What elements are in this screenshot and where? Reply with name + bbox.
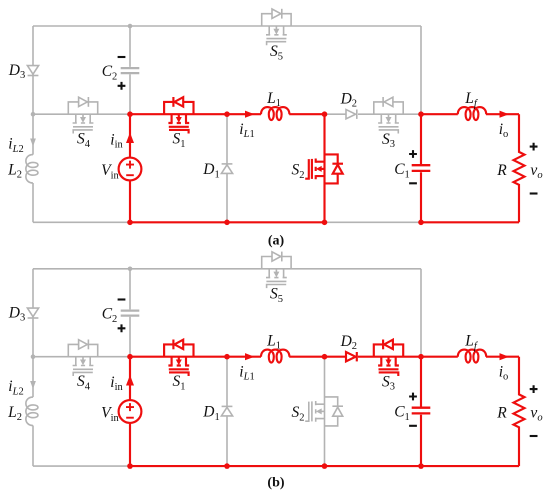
polarity minus of vo (fig a) <box>530 192 538 194</box>
current arrow io (fig b) <box>500 353 510 360</box>
node: D1 bottom junction (fig a) <box>224 220 230 226</box>
current arrow iin (fig b) <box>126 375 134 386</box>
current arrow iL1 (fig a) <box>245 111 255 118</box>
svg-text:S3: S3 <box>382 131 395 150</box>
voltage source Vin (fig b) <box>119 400 142 423</box>
inductor Lf (fig b) <box>458 350 486 363</box>
svg-text:io: io <box>499 363 509 382</box>
wire: middle rail C1 node to Lf (fig a) <box>421 113 458 115</box>
svg-text:D1: D1 <box>202 161 219 180</box>
diode D3 (fig b) <box>27 308 38 317</box>
figure (b) circuit <box>7 252 543 491</box>
node: C1 bottom junction (fig b) <box>418 463 424 469</box>
node: Vin top junction (fig b) <box>127 354 133 360</box>
svg-text:R: R <box>496 162 507 179</box>
diode D2 (fig b) <box>346 352 356 361</box>
wire: left rail lower segment with L2 (fig b) <box>32 357 34 466</box>
wire: S2 branch vertical (fig a) <box>323 114 325 222</box>
wire: C2 branch vertical (fig a) <box>129 26 131 114</box>
svg-text:S2: S2 <box>292 404 305 423</box>
wire: bottom rail left gray segment (fig a) <box>33 221 130 223</box>
wire: middle rail D2 to C1 node through S3 (fig b) <box>358 356 421 358</box>
inductor Lf (fig a) <box>458 107 486 120</box>
node: Vin bottom junction (fig a) <box>127 220 133 226</box>
wire: left rail lower segment with L2 (fig a) <box>32 114 34 222</box>
polarity plus of C2 (fig b) <box>118 324 126 332</box>
switch S3 (fig b) <box>374 344 403 356</box>
switch S1 (fig b) <box>164 344 193 356</box>
switch S2 (fig a) <box>325 154 338 183</box>
polarity minus of vo (fig b) <box>530 435 538 437</box>
wire: top rail (fig b) <box>33 268 421 270</box>
svg-text:Vin: Vin <box>101 162 119 181</box>
wire: Lf to load corner (fig b) <box>486 356 519 358</box>
wire: top rail (fig a) <box>33 25 421 27</box>
wire: middle rail Vin node to L1 (through S1) (fig b) <box>130 356 261 358</box>
switch S5 (fig b) <box>262 257 291 269</box>
svg-text:Lf: Lf <box>464 90 479 109</box>
wire: bottom rail S2-to-C1 segment (fig a) <box>325 221 422 223</box>
svg-text:S5: S5 <box>270 286 283 305</box>
switch S4 (fig a) <box>68 102 97 114</box>
diode D1 (fig b) <box>222 405 233 407</box>
wire: C2 branch vertical (fig b) <box>129 269 131 357</box>
wire: middle rail D2 to C1 node through S3 (fig a) <box>358 113 421 115</box>
polarity minus of C1 (fig b) <box>409 425 417 427</box>
svg-text:vo: vo <box>530 404 542 423</box>
capacitor C2 (fig a) <box>121 68 140 73</box>
current arrow io (fig a) <box>500 111 510 118</box>
node: S2 top junction (fig a) <box>322 111 328 117</box>
svg-text:L2: L2 <box>7 161 22 180</box>
svg-text:S1: S1 <box>173 373 186 392</box>
wire: Vin branch vertical (fig b) <box>129 357 131 466</box>
wire: left rail top segment with D3 (fig a) <box>32 26 34 114</box>
capacitor C1 (fig a) <box>412 165 431 171</box>
svg-text:D3: D3 <box>8 304 25 323</box>
svg-text:L1: L1 <box>266 90 281 109</box>
svg-text:C2: C2 <box>102 306 118 325</box>
svg-text:iL1: iL1 <box>239 363 254 382</box>
node: D1 top junction (fig b) <box>224 354 230 360</box>
node: C1 top junction (fig b) <box>418 354 424 360</box>
svg-text:(a): (a) <box>268 234 285 249</box>
inductor L1 (fig a) <box>261 107 289 120</box>
wire: C1 branch vertical (fig a) <box>420 114 422 222</box>
wire: middle rail Vin node to L1 (through S1) (fig a) <box>130 113 261 115</box>
svg-text:Lf: Lf <box>464 333 479 352</box>
polarity plus of C1 (fig b) <box>409 393 417 401</box>
node: left rail / middle rail junction (fig a) <box>31 112 36 117</box>
current arrow iL2 (fig a) <box>30 139 36 147</box>
diode D1 branch wire (fig a) <box>226 114 228 222</box>
svg-text:S1: S1 <box>173 131 186 150</box>
current arrow iin (fig a) <box>126 133 134 144</box>
diode D1 (fig a) <box>222 163 233 165</box>
svg-text:S5: S5 <box>270 43 283 62</box>
wire: bottom rail left gray segment (fig b) <box>33 465 130 467</box>
figure (a) circuit <box>7 9 543 249</box>
node: top rail / C2 junction (fig a) <box>128 24 133 29</box>
wire: C1 branch vertical (fig b) <box>420 357 422 466</box>
svg-text:D2: D2 <box>340 90 357 109</box>
wire: bottom rail S2-to-C1 segment (fig b) <box>325 465 422 467</box>
diode D2 (fig a) <box>346 110 356 119</box>
polarity minus of C1 (fig a) <box>409 182 417 184</box>
wire: middle rail L1 to S2 node (fig b) <box>289 356 324 358</box>
node: C1 top junction (fig a) <box>418 111 424 117</box>
svg-text:iin: iin <box>110 131 123 150</box>
polarity plus of C2 (fig a) <box>118 82 126 90</box>
svg-text:S4: S4 <box>77 373 91 392</box>
svg-text:vo: vo <box>530 162 542 181</box>
svg-text:S4: S4 <box>77 131 91 150</box>
node: S2 bottom junction (fig b) <box>322 463 328 469</box>
node: S2 bottom junction (fig a) <box>322 220 328 226</box>
wire: S5 right leg, top rail down to middle rail (fig b) <box>420 269 422 357</box>
node: Vin top junction (fig a) <box>127 111 133 117</box>
polarity plus of vo (fig a) <box>530 143 538 151</box>
capacitor C2 (fig b) <box>121 311 140 316</box>
polarity minus of C2 (fig b) <box>118 298 126 300</box>
polarity minus of C2 (fig a) <box>118 56 126 58</box>
node: D1 bottom junction (fig b) <box>224 463 230 469</box>
svg-text:iL2: iL2 <box>8 378 23 397</box>
svg-text:C1: C1 <box>394 161 410 180</box>
capacitor C1 (fig b) <box>412 408 431 414</box>
resistor R with right rail (fig a) <box>514 114 525 222</box>
wire: left rail top segment with D3 (fig b) <box>32 269 34 357</box>
wire: bottom rail C1-to-R red segment (fig b) <box>421 465 519 467</box>
svg-text:D1: D1 <box>202 404 219 423</box>
svg-text:(b): (b) <box>267 475 284 490</box>
inductor L2 (fig b) <box>26 397 38 425</box>
wire: middle rail S2 node to D2 (fig a) <box>325 113 347 115</box>
switch S5 (fig a) <box>262 14 291 26</box>
svg-text:iin: iin <box>110 374 123 393</box>
wire: Vin branch vertical (fig a) <box>129 114 131 222</box>
wire: S5 right leg, top rail down to middle rail (fig a) <box>420 26 422 114</box>
resistor R with right rail (fig b) <box>514 357 525 466</box>
switch S1 (fig a) <box>164 102 193 114</box>
svg-text:S2: S2 <box>292 162 305 181</box>
node: C1 bottom junction (fig a) <box>418 220 424 226</box>
svg-text:D3: D3 <box>8 62 25 81</box>
wire: bottom rail Vin-to-S2 red segment (fig b) <box>130 465 325 467</box>
inductor L2 (fig a) <box>26 155 38 183</box>
wire: middle rail left segment through S4 (fig b) <box>33 356 130 358</box>
wire: middle rail C1 node to Lf (fig b) <box>421 356 458 358</box>
node: top rail / C2 junction (fig b) <box>128 267 133 272</box>
node: S2 top junction (fig b) <box>322 354 328 360</box>
svg-text:iL2: iL2 <box>8 136 23 155</box>
current arrow iL2 (fig b) <box>30 381 36 389</box>
svg-text:S3: S3 <box>382 373 395 392</box>
svg-text:iL1: iL1 <box>239 121 254 140</box>
node: Vin bottom junction (fig b) <box>127 463 133 469</box>
svg-text:C1: C1 <box>394 404 410 423</box>
current arrow iL1 (fig b) <box>245 353 255 360</box>
svg-text:L1: L1 <box>266 332 281 351</box>
node: D1 top junction (fig a) <box>224 111 230 117</box>
wire: bottom rail Vin-to-S2 red segment (fig a) <box>130 221 325 223</box>
wire: middle rail left segment through S4 (fig a) <box>33 113 130 115</box>
switch S2 (fig b) <box>325 397 338 426</box>
svg-text:Vin: Vin <box>101 404 119 423</box>
wire: S2 branch vertical (fig b) <box>324 357 326 466</box>
wire: bottom rail C1-to-R red segment (fig a) <box>421 221 519 223</box>
wire: middle rail L1 to S2 node (fig a) <box>289 113 324 115</box>
polarity plus of C1 (fig a) <box>409 150 417 158</box>
svg-text:L2: L2 <box>7 404 22 423</box>
polarity plus of vo (fig b) <box>530 385 538 393</box>
diode D3 (fig a) <box>27 66 38 75</box>
voltage source Vin (fig a) <box>119 158 142 181</box>
svg-text:D2: D2 <box>340 333 357 352</box>
node: left rail / middle rail junction (fig b) <box>31 354 36 359</box>
switch S3 (fig a) <box>374 102 403 114</box>
diode D1 branch wire (fig b) <box>226 357 228 466</box>
svg-text:C2: C2 <box>102 63 118 82</box>
wire: middle rail S2 node to D2 (fig b) <box>325 356 347 358</box>
inductor L1 (fig b) <box>261 350 289 363</box>
svg-text:io: io <box>499 121 509 140</box>
switch S4 (fig b) <box>68 344 97 356</box>
wire: Lf to load corner (fig a) <box>486 113 519 115</box>
svg-text:R: R <box>496 404 507 421</box>
